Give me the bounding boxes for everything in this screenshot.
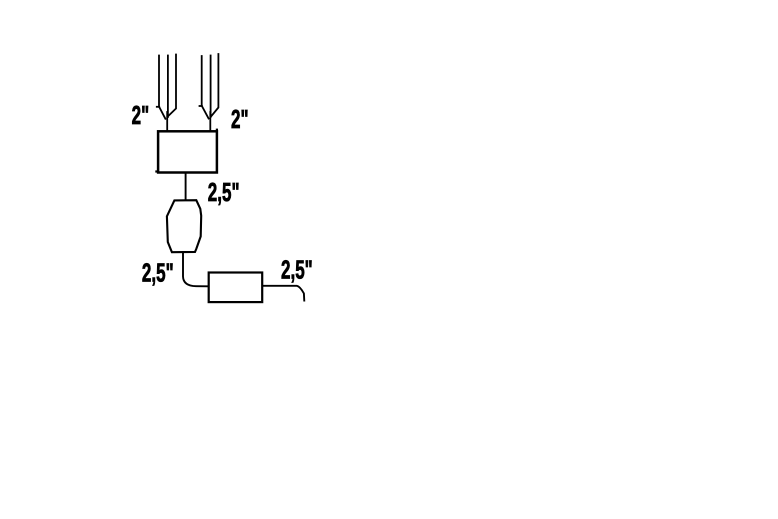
svg-text:2,5": 2,5" bbox=[142, 258, 174, 288]
svg-text:2,5": 2,5" bbox=[281, 255, 313, 285]
svg-text:2": 2" bbox=[231, 104, 249, 134]
svg-text:2,5": 2,5" bbox=[208, 177, 240, 207]
svg-text:2": 2" bbox=[132, 101, 150, 131]
